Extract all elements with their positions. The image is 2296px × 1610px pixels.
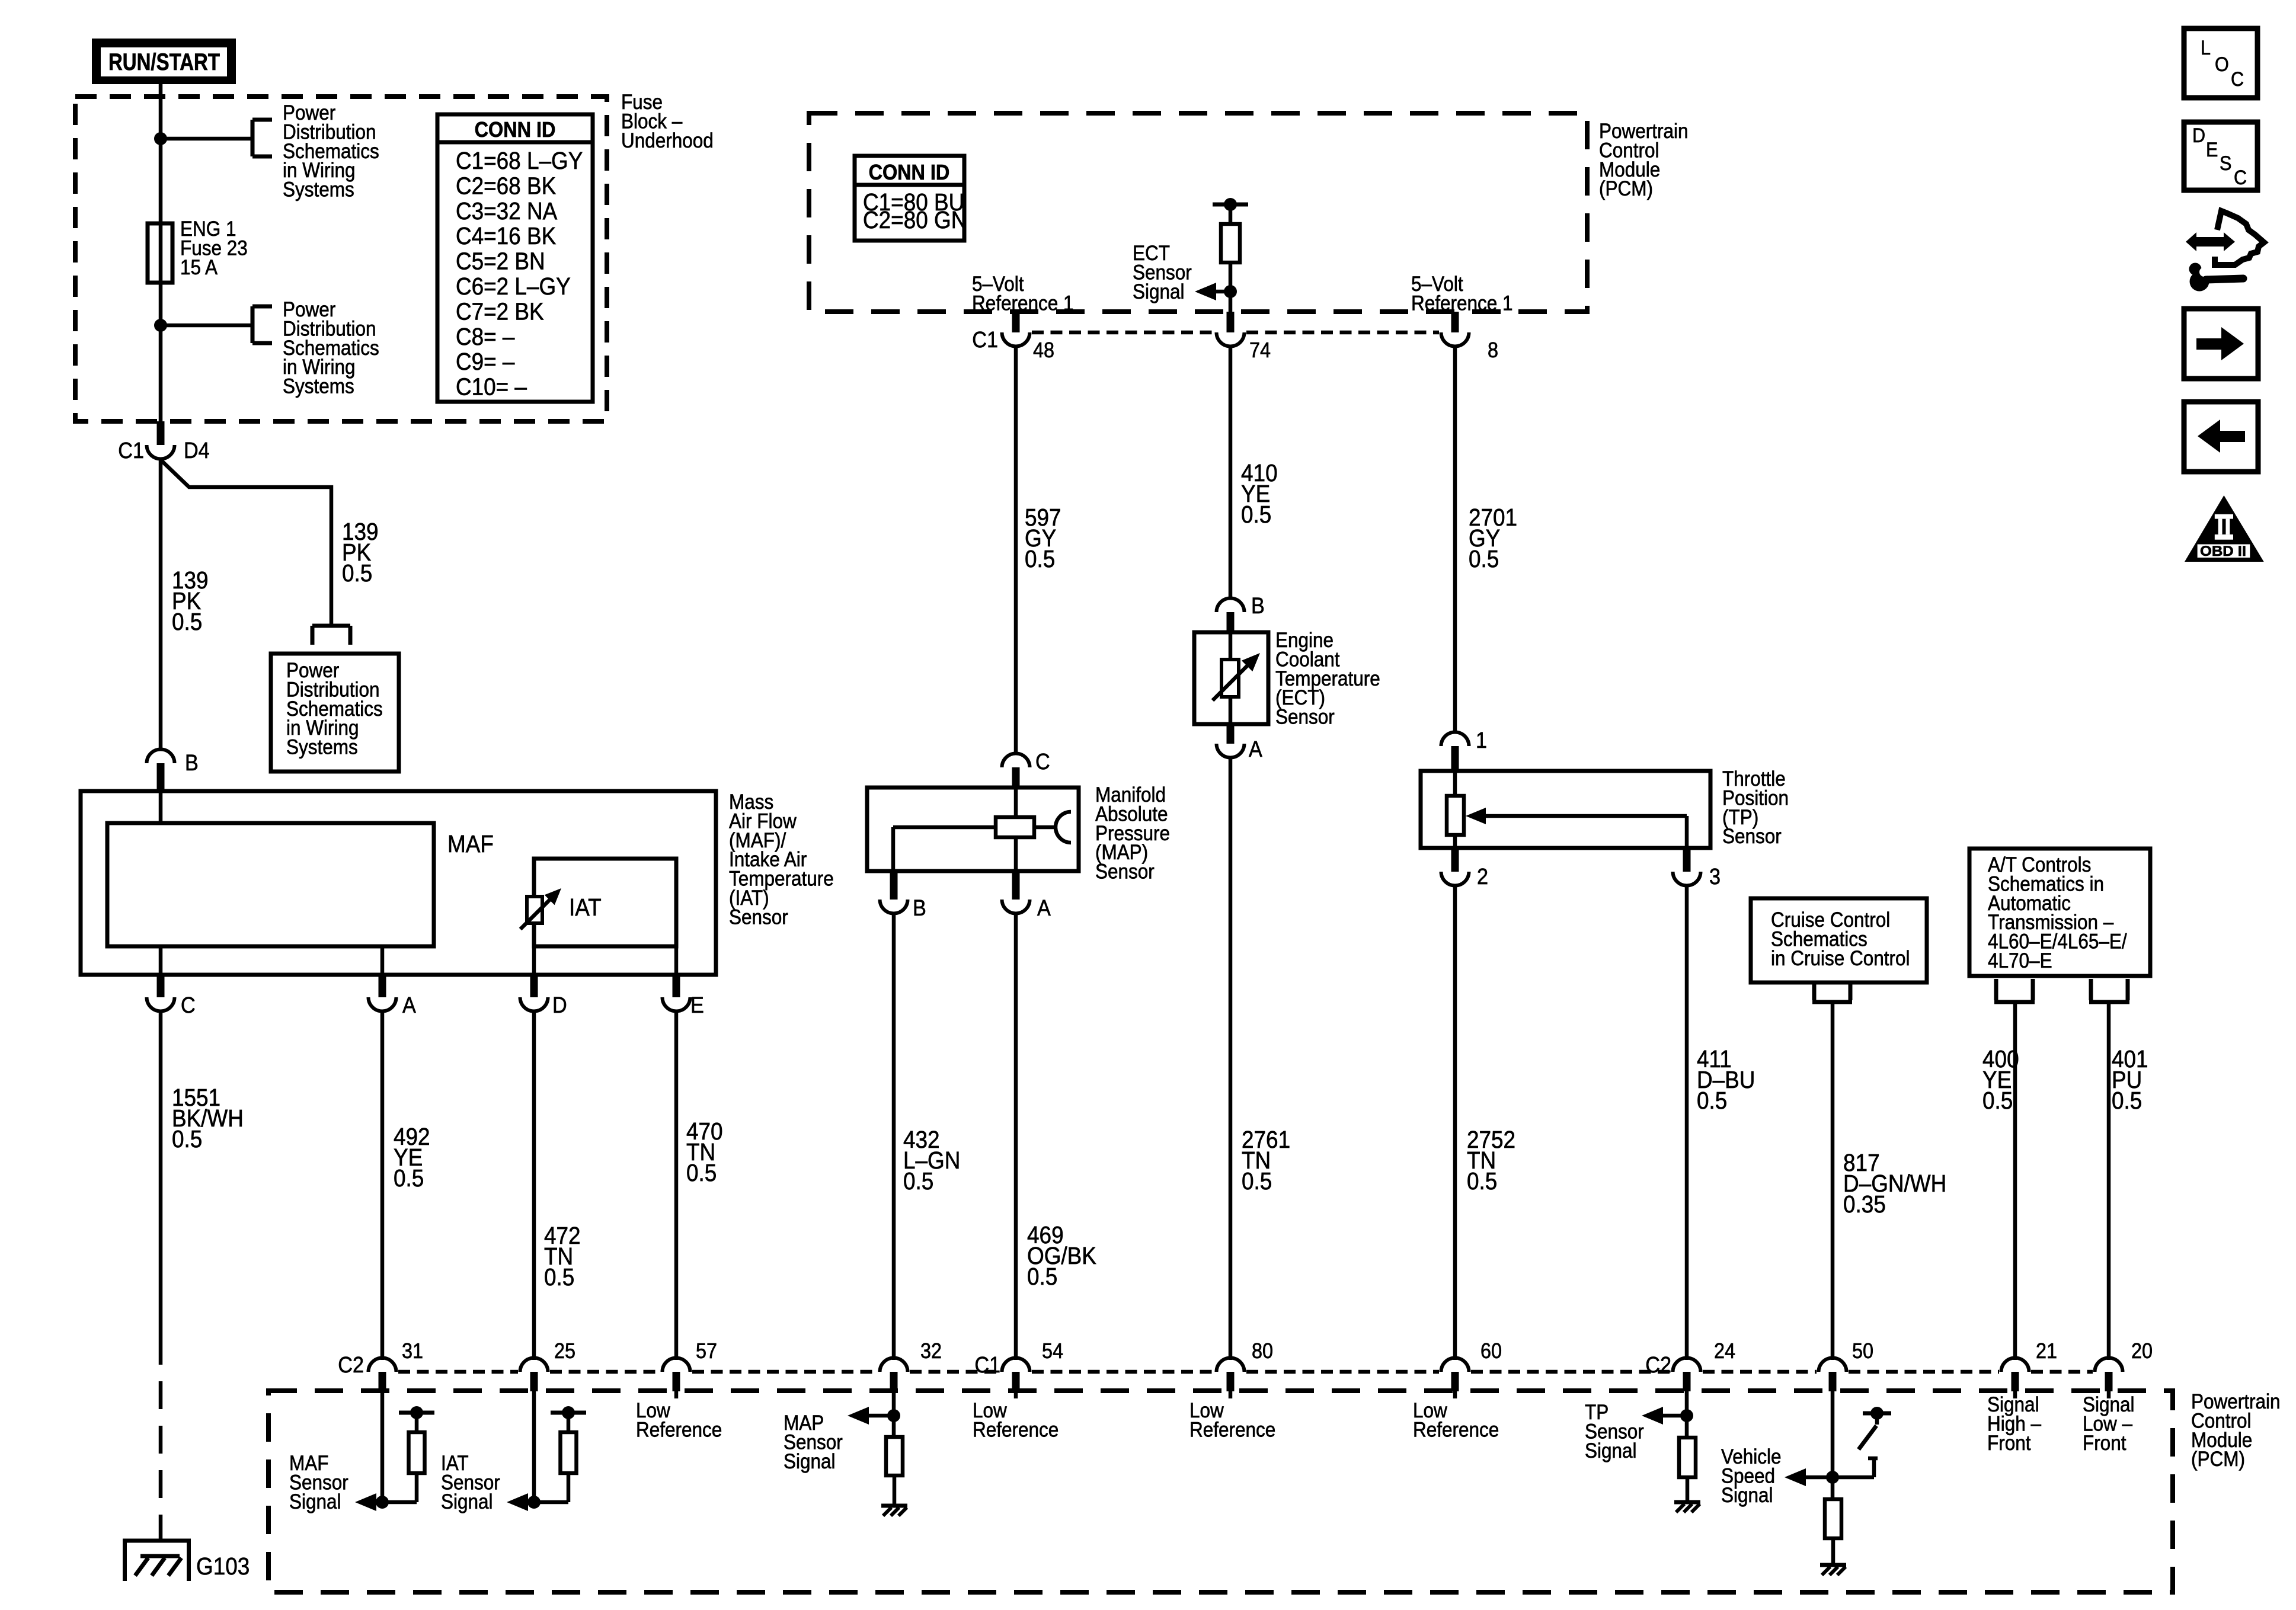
connector arc pin 54 (PCM bottom) [1002,1358,1030,1372]
svg-text:Sensor: Sensor [1275,706,1335,729]
wire 1551 BK/WH to ground [159,1522,163,1541]
connector arc pin 8 (PCM top) [1441,332,1469,347]
connector pin A stub (ECT) [1227,724,1235,744]
connector pin D stub (MAF/IAT) [530,975,538,997]
connector pin 1 stub (TP) [1451,746,1459,771]
cruise control schematics box [1751,898,1927,982]
connector pin A arc (MAP) [1002,900,1030,913]
wire 472 TN (IAT D to pin 25) [532,1011,536,1360]
junction dot MAF signal [376,1496,389,1509]
svg-text:C7=2 BK: C7=2 BK [456,299,544,325]
icon diagnostic wrench [2190,272,2209,292]
MAP pull-down resistor [892,1416,896,1437]
svg-text:IAT: IAT [569,894,602,921]
wire 432 L-GN (MAP B to pin 32) [892,913,896,1360]
ground (VSS signal) [1820,1563,1846,1567]
wire 817 D-GN/WH (cruise to pin 50) [1831,1002,1835,1360]
ECT pull-up supply T-bar [1213,203,1248,207]
VSS contact to junction [1833,1475,1874,1480]
icon OBD II triangle [2185,495,2264,562]
connector arc pin 31 (PCM bottom) [369,1358,396,1372]
connector stub pin 21 (PCM bottom) [2012,1372,2019,1391]
svg-text:RUN/START: RUN/START [108,49,220,75]
icon back arrow box [2184,402,2258,472]
svg-text:32: 32 [920,1339,942,1363]
connector stub pin 60 (PCM bottom) [1451,1372,1459,1391]
svg-text:L: L [2201,37,2211,59]
junction dot IAT signal [527,1496,541,1509]
svg-text:21: 21 [2036,1339,2057,1363]
wire pin 25 into PCM [532,1391,536,1502]
svg-text:15 A: 15 A [180,256,218,279]
svg-text:D: D [552,992,567,1017]
off-page tab below A/T box (left) [1994,979,1998,1000]
connector pin C stub (MAF/IAT) [157,975,165,997]
MAF pull-up T-bar [399,1411,434,1415]
svg-text:Reference: Reference [973,1419,1059,1442]
ground (TP signal) [1674,1500,1700,1505]
wire IAT E inside box [674,946,679,975]
svg-text:0.5: 0.5 [544,1264,574,1291]
svg-text:B: B [185,750,199,775]
connector pin B stub (MAP) [890,871,898,900]
wire MAF A inside box [380,946,385,975]
svg-text:Signal: Signal [1585,1439,1637,1462]
svg-text:Reference: Reference [636,1419,722,1442]
svg-text:CONN ID: CONN ID [475,118,556,142]
icon diagnostic double arrow [2186,232,2235,251]
svg-text:0.5: 0.5 [1025,546,1055,572]
connector stub pin 57 (PCM bottom) [673,1372,680,1391]
junction dot VSS signal [1826,1471,1839,1484]
ECT internal wire [1229,632,1233,660]
svg-text:8: 8 [1488,338,1498,362]
svg-text:0.5: 0.5 [172,1126,202,1153]
svg-text:CONN ID: CONN ID [869,161,950,184]
svg-text:C: C [1035,748,1050,774]
svg-text:48: 48 [1033,338,1054,362]
connector pin 1 arc (TP) [1441,732,1469,747]
connector arc pin 74 (PCM top) [1217,332,1245,347]
connector pin B stub (ECT) [1227,612,1235,632]
svg-text:Systems: Systems [283,178,354,201]
connector arc pin 60 (PCM bottom) [1441,1358,1469,1372]
MAF sensor signal arrow [355,1493,376,1511]
connector pin C arc (MAP) [1002,754,1030,768]
svg-text:0.5: 0.5 [1697,1087,1727,1114]
fuse ENG 1 Fuse 23 15 A [148,223,172,283]
VSS buffer switch T-bar [1863,1411,1891,1416]
connector pin C stub (MAP) [1012,767,1020,788]
junction dot node 2 [154,319,167,332]
MAF inner box [107,823,434,946]
connector arc pin 57 (PCM bottom) [663,1358,690,1372]
MAF pull-up resistor [415,1413,419,1432]
connector pin C arc (MAF/IAT) [147,997,175,1012]
wire from RUN/START into fuse block [159,83,163,421]
connector arc pin 50 (PCM bottom) [1819,1358,1847,1372]
svg-text:G103: G103 [196,1553,250,1580]
wire pin 60 into PCM [1453,1391,1457,1398]
connector C1 pin D4 arc [147,445,175,459]
conn id table fuse block [437,114,593,402]
svg-text:3: 3 [1709,863,1721,889]
connector pin 3 stub (TP) [1683,848,1691,872]
wire pin 21 into PCM [2013,1391,2017,1398]
MAP internal wire horizontal [893,825,996,830]
connector arc pin 21 (PCM bottom) [2001,1358,2029,1372]
connector pin A stub (MAP) [1012,871,1020,900]
connector arc pin 25 (PCM bottom) [520,1358,548,1372]
icon LOC box [2184,28,2257,98]
svg-text:C1: C1 [972,327,998,352]
switch RUN/START ignition feed box [92,39,236,84]
IAT pull-up T-bar [551,1411,586,1415]
connector C1 pin D4 stub [157,421,165,445]
svg-text:Systems: Systems [286,736,358,759]
ground (MAP signal) [881,1504,907,1508]
wire 139 PK diagonal branch [161,460,331,624]
wire B to MAF inner box [159,791,163,823]
svg-text:Signal: Signal [784,1450,836,1473]
connector stub pin 31 (PCM bottom) [379,1372,386,1391]
TP sensor box [1421,771,1710,848]
svg-text:57: 57 [696,1339,717,1363]
connector pin 3 arc (TP) [1673,872,1701,885]
wire MAF C inside box [159,946,163,975]
connector pin E arc (MAF/IAT) [663,997,690,1012]
svg-text:Reference 1: Reference 1 [972,292,1074,315]
svg-text:2: 2 [1477,863,1488,889]
off-page tab above power distribution box [312,624,350,628]
svg-text:Signal: Signal [441,1490,493,1513]
svg-text:0.5: 0.5 [1982,1087,2013,1114]
wire branch to power distribution (bottom) [161,324,252,328]
MAP sensor signal arrow [848,1407,869,1425]
svg-text:0.5: 0.5 [1242,1168,1272,1195]
VSS switch fixed contact [1868,1457,1878,1461]
svg-text:(PCM): (PCM) [1599,178,1653,201]
wire 139 PK main down to MAF [159,460,163,737]
off-page tab below cruise box [1812,983,1817,1000]
MAP internal resistor [996,817,1034,837]
connector arc pin 20 (PCM bottom) [2095,1358,2123,1372]
conn id table PCM [855,156,964,241]
svg-text:D4: D4 [184,437,210,463]
icon forward arrow [2196,338,2221,350]
svg-text:0.5: 0.5 [903,1168,933,1195]
ECT sensor signal arrow [1195,283,1216,300]
svg-text:Sensor: Sensor [1722,825,1782,849]
svg-text:C5=2 BN: C5=2 BN [456,248,545,275]
ECT sensor box [1194,632,1268,724]
svg-text:50: 50 [1852,1339,1873,1363]
MAF/IAT sensor outer box [81,791,716,975]
connector arc pin 24 (PCM bottom) [1673,1358,1701,1372]
svg-text:C9= –: C9= – [456,348,515,375]
wire 2761 TN (ECT A to pin 80) [1229,757,1233,1360]
wire 469 OG/BK (MAP A to pin 54) [1014,913,1018,1360]
svg-text:31: 31 [402,1339,423,1363]
connector arc pin 48 (PCM top) [1002,332,1030,347]
svg-text:Signal: Signal [289,1490,341,1513]
connector dashed line top row [1032,331,1214,335]
connector stub pin 20 (PCM bottom) [2105,1372,2113,1391]
svg-text:Front: Front [2083,1432,2126,1455]
wire 470 TN (IAT E to pin 57) [674,1011,679,1360]
svg-text:60: 60 [1480,1339,1502,1363]
svg-text:Sensor: Sensor [1095,860,1155,884]
icon back arrow [2220,431,2245,442]
svg-text:E: E [690,992,704,1017]
ECT pull-up resistor (in PCM) [1229,204,1233,224]
connector stub pin 54 (PCM bottom) [1012,1372,1020,1391]
svg-text:C: C [2234,167,2247,189]
svg-text:Reference 1: Reference 1 [1411,292,1513,315]
svg-text:54: 54 [1042,1339,1063,1363]
wire pin 54 into PCM [1014,1391,1018,1398]
svg-text:1: 1 [1476,727,1487,753]
svg-text:0.5: 0.5 [1467,1168,1497,1195]
wire into MAF pin B [159,737,163,751]
junction dot MAP signal [887,1409,900,1422]
IAT thermistor symbol [527,897,542,923]
wire 400 YE (A/T to pin 21) [2013,1002,2017,1360]
svg-text:B: B [1251,593,1265,618]
wire IAT D inside box [532,946,536,975]
IAT sub-box [534,859,676,946]
wire pin 80 into PCM [1229,1391,1233,1398]
svg-text:Front: Front [1987,1432,2030,1455]
connector pin A arc (MAF/IAT) [369,997,396,1012]
svg-text:Reference: Reference [1189,1419,1275,1442]
svg-text:C: C [181,992,196,1017]
svg-text:0.5: 0.5 [172,609,202,635]
connector stub pin 8 (PCM top) [1451,312,1459,332]
svg-text:20: 20 [2131,1339,2153,1363]
TP internal wire [1453,771,1457,796]
svg-text:0.5: 0.5 [2112,1087,2142,1114]
svg-text:C10= –: C10= – [456,374,527,401]
wire branch to power distribution (top) [161,137,252,141]
connector pin A arc (ECT) [1217,744,1245,758]
svg-text:A: A [1249,736,1263,761]
VSS switch lever [1875,1413,1879,1425]
junction dot TP signal [1680,1409,1693,1422]
connector pin B arc (ECT) [1217,598,1245,613]
svg-text:0.35: 0.35 [1843,1191,1886,1218]
junction dot node 1 [154,132,167,145]
connector pin B arc (MAP) [880,900,908,913]
svg-text:C2=68 BK: C2=68 BK [456,173,556,200]
ECT thermistor symbol [1221,660,1239,697]
svg-text:S: S [2220,152,2231,175]
IAT pull-up resistor [567,1413,571,1432]
svg-text:Underhood: Underhood [621,129,714,152]
TP wiper arrow [1466,808,1486,824]
icon diagnostic harness outline [2215,211,2264,265]
TP internal resistor [1447,796,1464,835]
svg-text:C: C [2231,68,2244,91]
svg-text:4L70–E: 4L70–E [1988,950,2052,973]
svg-text:C6=2 L–GY: C6=2 L–GY [456,273,571,300]
connector stub pin 24 (PCM bottom) [1683,1372,1691,1391]
svg-text:24: 24 [1714,1339,1735,1363]
connector stub pin 50 (PCM bottom) [1829,1372,1837,1391]
off-page bracket power distribution bottom [251,306,255,343]
wire pin 31 into PCM [380,1391,385,1502]
svg-text:Signal: Signal [1721,1484,1773,1507]
wire 410 YE (pin 74 to ECT B) [1229,346,1233,598]
A/T controls schematics box [1969,849,2150,976]
wire 597 GY (pin 48 to MAP C) [1014,346,1018,754]
icon DESC box [2184,122,2257,190]
connector pin B stub (MAF) [157,763,165,791]
svg-text:(PCM): (PCM) [2191,1448,2245,1471]
connector stub pin 74 (PCM top) [1227,312,1235,332]
connector stub pin 25 (PCM bottom) [530,1372,538,1391]
MAP internal wire vertical [1014,788,1018,817]
svg-text:0.5: 0.5 [394,1165,424,1192]
connector pin 2 arc (TP) [1441,872,1469,885]
svg-text:0.5: 0.5 [342,560,372,587]
wire pin 57 into PCM [674,1391,679,1398]
wire 2701 GY (pin 8 to TP 1) [1453,346,1457,732]
wire ECT signal to pin 74 [1229,292,1233,312]
svg-text:D: D [2192,124,2205,147]
wire 401 PU (A/T to pin 20) [2107,1002,2111,1360]
svg-text:C1=68 L–GY: C1=68 L–GY [456,148,583,174]
wire 2752 TN (TP 2 to pin 60) [1453,885,1457,1360]
svg-text:C1: C1 [118,437,144,463]
svg-text:Sensor: Sensor [729,906,788,929]
svg-text:Reference: Reference [1413,1419,1499,1442]
powertrain control module dashed box (bottom) [268,1391,2173,1592]
wire 411 D-BU (TP 3 to pin 24) [1685,885,1689,1360]
svg-text:C2: C2 [338,1352,364,1377]
power distribution schematics box [271,654,399,772]
svg-text:0.5: 0.5 [1027,1263,1057,1290]
svg-text:O: O [2215,53,2229,76]
svg-text:80: 80 [1252,1339,1273,1363]
connector pin D arc (MAF/IAT) [520,997,548,1012]
svg-text:E: E [2206,139,2218,161]
TP sensor signal arrow [1642,1407,1663,1425]
junction dot ECT signal [1224,285,1237,298]
connector arc pin 32 (PCM bottom) [880,1358,908,1372]
svg-text:C4=16 BK: C4=16 BK [456,223,556,249]
TP pull-down resistor [1685,1416,1689,1438]
wire 492 YE (MAF A to pin 31) [380,1011,385,1360]
wire pin 24 into PCM [1685,1391,1689,1416]
IAT sensor signal arrow [507,1493,528,1511]
svg-text:OBD II: OBD II [2200,543,2246,559]
svg-text:B: B [913,895,926,920]
svg-text:25: 25 [554,1339,575,1363]
off-page tab below A/T box (right) [2089,979,2093,1000]
powertrain control module dashed box (top) [809,113,1587,312]
wire pin 32 into PCM [892,1391,896,1416]
connector stub pin 32 (PCM bottom) [890,1372,898,1391]
wire 1551 BK/WH dashed part [159,1337,163,1522]
svg-text:Systems: Systems [283,375,354,398]
off-page bracket power distribution top [251,120,255,156]
fuse block - underhood dashed box [75,97,607,421]
ground G103 symbol [123,1539,191,1543]
wire 1551 BK/WH solid part [159,1011,163,1337]
svg-text:A: A [402,992,417,1017]
connector dashed line bottom row [398,1370,518,1374]
VSS pull-down resistor [1831,1477,1835,1499]
vehicle speed signal arrow [1785,1468,1806,1486]
MAP pressure port arc [1034,825,1056,830]
svg-text:0.5: 0.5 [1469,546,1499,572]
svg-text:MAF: MAF [447,831,494,857]
MAP sensor box [867,788,1079,871]
svg-text:C3=32 NA: C3=32 NA [456,198,557,225]
svg-text:0.5: 0.5 [1241,501,1271,528]
connector pin E stub (MAF/IAT) [673,975,680,997]
svg-text:A: A [1037,895,1051,920]
wire pin 50 into PCM [1831,1391,1835,1477]
icon forward arrow box [2184,309,2258,379]
svg-text:Signal: Signal [1133,280,1185,303]
svg-text:0.5: 0.5 [686,1160,717,1186]
svg-text:in Cruise Control: in Cruise Control [1771,947,1910,970]
connector pin A stub (MAF/IAT) [379,975,386,997]
connector stub pin 48 (PCM top) [1012,312,1020,332]
svg-text:C2=80 GN: C2=80 GN [863,207,967,233]
connector pin B arc (MAF) [147,750,175,764]
connector pin 2 stub (TP) [1451,848,1459,872]
wire pin 20 into PCM [2107,1391,2111,1398]
connector stub pin 80 (PCM bottom) [1227,1372,1235,1391]
svg-text:74: 74 [1249,338,1271,362]
svg-text:C8= –: C8= – [456,324,515,350]
connector arc pin 80 (PCM bottom) [1217,1358,1245,1372]
